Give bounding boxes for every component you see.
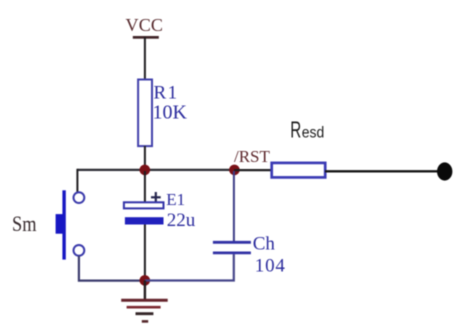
junction node Ch branch [229, 165, 240, 176]
svg-text:22u: 22u [167, 210, 196, 231]
svg-text:Ch: Ch [253, 233, 276, 254]
power symbol VCC [126, 15, 164, 39]
capacitor Ch [213, 242, 251, 253]
wire junction to capacitor E1 [144, 171, 146, 202]
svg-text:Sm: Sm [12, 211, 37, 236]
capacitor E1 [124, 192, 164, 225]
wire node to switch top [76, 169, 78, 192]
svg-text:E1: E1 [166, 190, 185, 209]
svg-text:VCC: VCC [126, 15, 164, 35]
svg-text:/RST: /RST [234, 147, 271, 166]
wire E1 to bottom junction [144, 225, 146, 281]
resistor Resd [272, 163, 326, 178]
wire junction to Resd [234, 169, 272, 171]
svg-text:R: R [290, 116, 301, 142]
bottom junction node [140, 275, 151, 286]
ground [121, 300, 168, 321]
svg-text:104: 104 [255, 256, 286, 277]
terminal dot [437, 162, 452, 180]
svg-text:R1: R1 [154, 83, 179, 104]
wire Resd to terminal [325, 170, 441, 172]
switch Sm [56, 190, 85, 259]
svg-text:10K: 10K [153, 102, 188, 124]
wire switch bottom to bottom node [79, 256, 145, 281]
junction node R1/E1 [140, 165, 151, 176]
svg-text:esd: esd [302, 124, 325, 141]
wire Ch to junction [233, 171, 235, 241]
wire bottom junction to Ch [145, 254, 234, 280]
resistor R1 [138, 80, 152, 147]
wire junction to ground [144, 281, 146, 300]
wire horizontal net /RST [77, 169, 235, 171]
wire VCC to R1 [144, 37, 146, 81]
wire R1 to node /RST [144, 146, 146, 171]
